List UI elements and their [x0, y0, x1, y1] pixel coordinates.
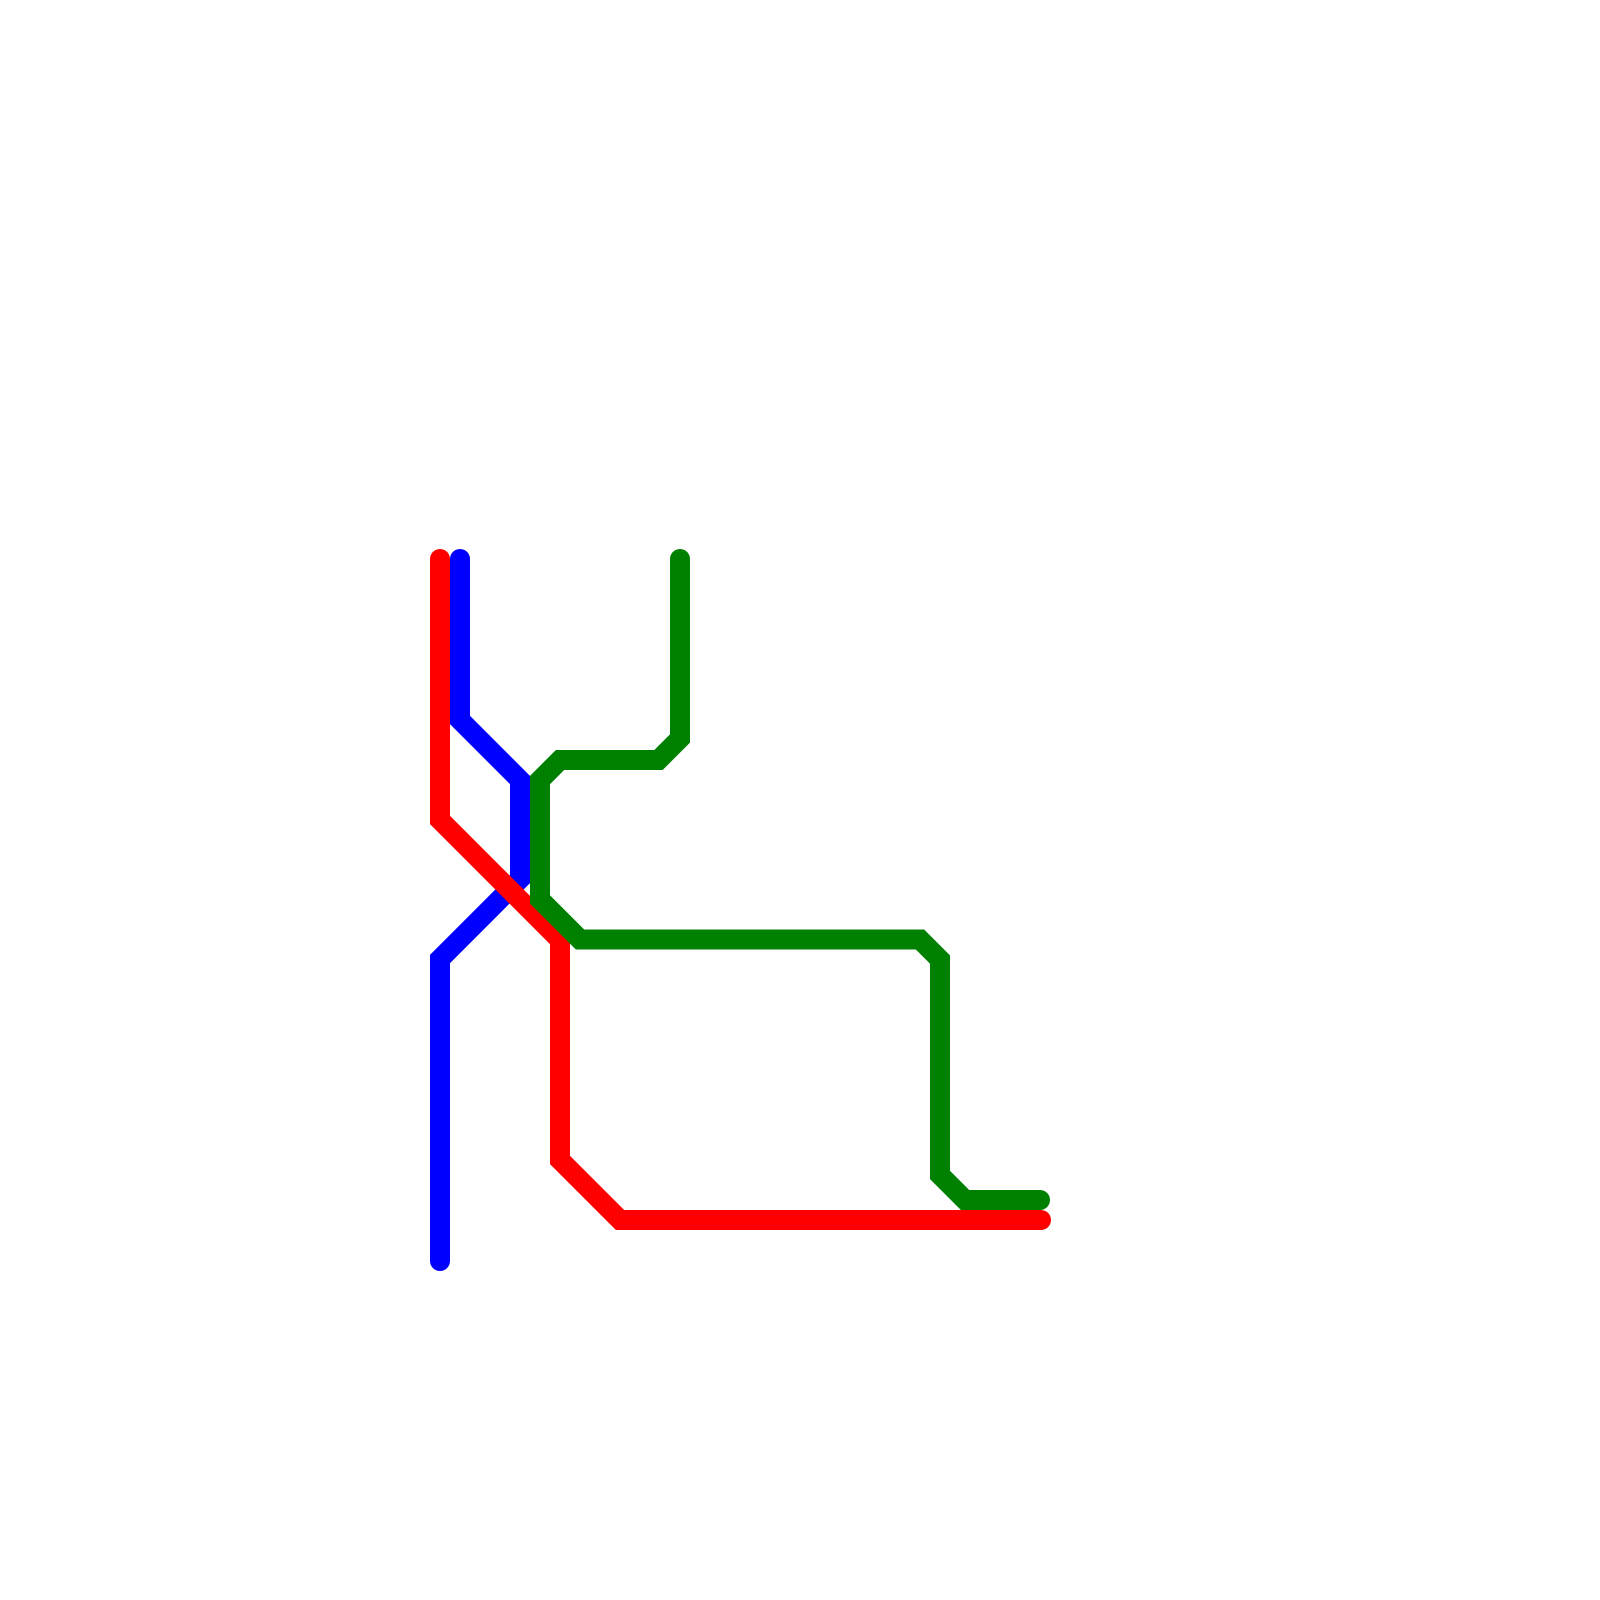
green line	[540, 559, 1040, 1200]
red line	[440, 559, 1041, 1220]
blue line	[440, 559, 520, 1261]
